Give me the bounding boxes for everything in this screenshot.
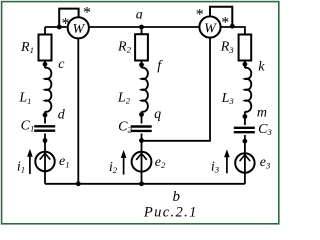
- svg-text:c: c: [58, 57, 65, 72]
- svg-text:*: *: [62, 15, 70, 32]
- svg-text:*: *: [83, 5, 91, 22]
- svg-text:a: a: [136, 8, 143, 23]
- svg-text:W: W: [204, 21, 217, 36]
- svg-text:k: k: [258, 60, 265, 75]
- svg-text:*: *: [196, 6, 204, 23]
- svg-text:d: d: [58, 108, 66, 123]
- svg-text:Рис.2.1: Рис.2.1: [143, 204, 198, 220]
- svg-text:*: *: [221, 14, 229, 31]
- svg-text:W: W: [72, 22, 85, 37]
- svg-text:m: m: [257, 106, 267, 121]
- svg-text:q: q: [154, 107, 161, 122]
- svg-text:b: b: [173, 189, 181, 205]
